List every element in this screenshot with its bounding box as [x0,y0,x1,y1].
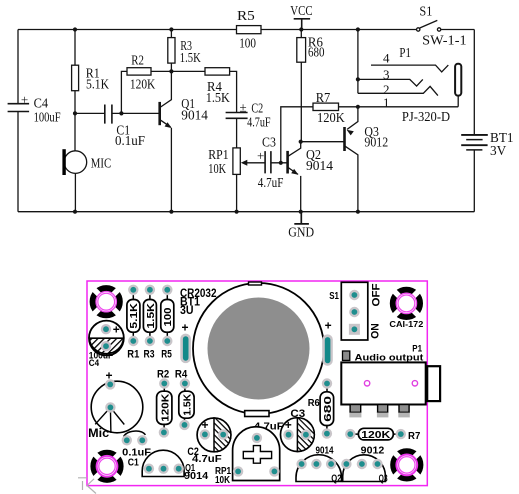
connector P1 pin 3 contact [358,79,423,86]
svg-text:9012: 9012 [361,445,385,457]
wire MIC to bottom rail [74,173,76,211]
pad RP1 top [252,433,262,443]
wire R3 top [170,30,172,38]
junction node bottom rail Q2/GND [299,210,303,214]
wire R7 left leg down to C3/Q2 node [281,107,313,163]
svg-text:+: + [201,418,208,432]
svg-text:ON: ON [370,323,382,339]
connector P1 left branch [357,30,359,94]
svg-text:3V: 3V [490,144,506,159]
resistor R2 body [157,388,172,428]
microphone MIC [62,149,86,175]
svg-text:RP1: RP1 [208,148,228,163]
capacitor C4 [8,104,30,112]
svg-text:4.7uF: 4.7uF [192,453,222,465]
battery holder top tab [249,282,262,285]
svg-text:R1: R1 [127,348,139,360]
microphone Mic body [91,381,143,433]
svg-text:+: + [181,320,188,334]
wire top VCC rail [18,29,474,31]
wire R3 bottom to node [170,63,172,71]
ground GND [294,212,309,224]
resistor R5 [237,26,262,34]
svg-text:100uF: 100uF [34,110,61,125]
svg-text:9014: 9014 [306,159,333,174]
svg-text:680: 680 [308,45,325,60]
pad S1 top [349,290,359,300]
svg-text:GND: GND [288,225,314,240]
pad R7 left [345,429,355,439]
pad R1 bottom [128,336,138,346]
svg-text:100: 100 [162,307,174,326]
svg-text:5.1K: 5.1K [86,78,109,93]
svg-text:R3: R3 [144,348,155,360]
mounting hole bottom-right [393,451,420,478]
pad Q3 1 [341,459,351,469]
switch S1 [417,20,441,31]
pad S1 bottom square [349,324,360,335]
pad Q3 2 [357,459,367,469]
junction node bottom rail Q1 [169,210,173,214]
wire R7 right / P1 pin1 line [339,96,459,107]
svg-text:C4: C4 [34,97,49,112]
svg-text:+: + [325,319,332,333]
wire C1 to Q1 base [112,112,160,114]
junction node top rail at P1 branch [356,27,360,31]
wire R4 right down to C2 [230,71,237,112]
svg-text:1.5K: 1.5K [206,91,230,106]
svg-text:S1: S1 [329,290,339,302]
pad Q1 2 [158,464,168,474]
jack index circle right [412,381,417,386]
svg-text:C2: C2 [251,102,263,117]
wire bottom ground rail [18,211,474,213]
wire node R1/C1 to C1 [75,112,105,114]
svg-text:10K: 10K [215,474,230,486]
svg-text:R4: R4 [175,369,188,381]
svg-text:4: 4 [383,51,390,66]
pad R7 right [396,429,406,439]
pad R3 top [145,285,155,295]
mounting hole top-left [93,288,120,315]
wire R2 left leg [121,71,127,113]
connector P1 pin1 marker [343,351,350,360]
junction node C3/R7/Q2 base [279,161,283,165]
svg-text:1.5K: 1.5K [181,393,193,415]
wire R1 top [74,30,76,66]
pad C1 left [122,435,132,445]
transistor Q1 [160,71,172,211]
svg-text:PJ-320-D: PJ-320-D [402,110,450,125]
svg-text:120K: 120K [317,111,345,126]
svg-text:VCC: VCC [290,4,312,19]
audio jack P1 body [341,362,425,404]
capacitor C2 [226,113,248,119]
pad C3 right [301,430,311,440]
svg-text:3U: 3U [180,305,194,317]
connector P1 plug sleeve [455,64,461,96]
mounting hole top-right [393,290,420,317]
pad C2 right [218,429,228,439]
svg-text:Mic: Mic [88,428,110,440]
resistor R1 body [127,295,140,336]
jack leg 3 [398,405,410,418]
pad R4 top [180,378,190,388]
svg-text:1.5K: 1.5K [180,51,201,66]
svg-text:120K: 120K [130,78,155,93]
wire R1 bottom to MIC [74,91,76,151]
pad Q2 1 [296,459,306,469]
mounting hole bottom-left [93,453,120,480]
wire C3 to Q2 base [271,162,288,164]
capacitor C4 body [89,321,124,356]
wire R2 right to node [151,70,171,72]
pad RP1 left [233,466,243,476]
pad Q3 3 [372,459,382,469]
svg-text:R6: R6 [308,397,320,409]
svg-text:CAI-172: CAI-172 [389,319,423,329]
wire Q2 collector node to Q3 base [301,141,345,143]
junction node R1/C1/MIC [73,111,77,115]
svg-text:R5: R5 [161,348,172,360]
capacitor C3 body [281,418,315,452]
wire R6 top [300,30,302,38]
resistor R6 [297,38,306,63]
jack leg 1 [349,405,361,418]
svg-text:9012: 9012 [364,136,388,151]
junction node R6/Q2 collector [299,140,303,144]
svg-text:C4: C4 [89,358,99,368]
wire right branch to BT1 [473,30,475,212]
battery holder bottom tab [245,411,269,417]
connector P1 pin 4 contact [371,65,448,72]
pad R6 bottom [322,428,332,438]
capacitor C1 arc body [124,431,146,436]
junction node top rail at VCC/R6 [299,27,303,31]
transistor Q1 body [142,450,184,476]
junction node top rail at R3 [169,27,173,31]
pad Mic top [105,379,115,389]
pad R1 top [128,285,138,295]
pad R2 bottom [159,427,169,437]
svg-text:MIC: MIC [91,157,111,172]
pad Mic center [105,402,115,412]
pad R3 bottom [145,336,155,346]
transistor Q2 body [296,455,342,482]
svg-text:R7: R7 [408,430,420,442]
power VCC [294,19,310,30]
svg-text:Q3: Q3 [379,473,388,485]
pad RP1 right [269,466,279,476]
capacitor C3 [265,151,271,173]
svg-text:+: + [113,323,120,337]
junction node P1 pin3 [356,77,360,81]
connector P1 pin 2 contact [358,86,438,95]
potentiometer RP1 [233,148,265,175]
svg-text:120K: 120K [361,429,390,441]
pad Q1 3 [174,464,184,474]
pad C4 bottom [101,341,111,351]
jack leg 2 [377,405,389,418]
junction node R7/pin1/Q3 emitter [356,105,360,109]
pad Q2 3 [326,459,336,469]
resistor R4 [205,68,230,75]
PCB board outline [87,281,427,486]
svg-text:SW-1-1: SW-1-1 [422,33,466,48]
battery BT1 [461,135,488,145]
svg-text:+: + [105,369,112,383]
svg-text:10K: 10K [208,162,226,177]
svg-text:R7: R7 [316,91,331,106]
svg-text:1: 1 [383,95,390,110]
battery holder outline circle [193,283,324,414]
transistor Q2 [288,142,301,212]
wire C2 to RP1 [236,118,238,148]
svg-text:100: 100 [239,37,256,52]
transistor Q3 body [343,455,386,482]
pad R5 bottom [162,336,172,346]
resistor R6 body [320,389,334,429]
pad C3 left [283,430,293,440]
resistor R1 [72,65,79,91]
svg-text:OFF: OFF [371,283,383,306]
svg-text:120K: 120K [159,393,171,421]
svg-text:9014: 9014 [316,445,334,457]
wire RP1 bottom to rail [236,174,238,211]
capacitor C1 [105,105,112,124]
resistor R7 body [355,428,395,440]
jack index circle left [364,381,369,386]
pad R6 top [322,378,332,388]
resistor R3 body [143,295,156,336]
svg-text:9014: 9014 [184,470,208,482]
pad S1 middle [349,307,359,317]
wire R6 bottom to Q2 collector node [300,62,302,142]
pad Q1 1 [144,464,154,474]
pad R2 top [159,378,169,388]
battery clip slot right [322,334,333,365]
junction node C1/R2 [119,111,123,115]
resistor R2 [127,68,151,75]
svg-text:680: 680 [322,396,334,422]
transistor Q3 [345,107,358,212]
svg-text:R2: R2 [157,369,169,381]
wire node to R4 [171,70,205,72]
wire left branch (C4 branch) [17,30,19,212]
svg-text:+: + [257,148,264,163]
svg-text:±: ± [21,92,28,107]
svg-text:C1: C1 [128,456,139,468]
junction node bottom rail Q3 [356,210,360,214]
svg-text:Q2: Q2 [331,473,341,485]
svg-text:0.1uF: 0.1uF [115,134,145,149]
speaker/battery gray disc [208,298,310,400]
svg-text:S1: S1 [419,4,432,19]
pad R4 bottom [179,420,189,430]
svg-text:C3: C3 [290,408,305,420]
capacitor C2 body [197,418,231,452]
resistor R3 [168,38,175,64]
svg-text:9014: 9014 [181,109,208,124]
resistor R7 [313,103,339,110]
pad R5 top [162,285,172,295]
corner cursor artifact [78,476,98,494]
pad Q2 2 [311,459,321,469]
svg-text:R5: R5 [237,9,255,24]
potentiometer RP1 body [233,427,280,481]
resistor R5 body [161,295,174,336]
resistor R4 body [179,388,194,421]
pad C1 right [137,435,147,445]
svg-text:R2: R2 [131,54,144,69]
svg-text:4.7uF: 4.7uF [258,176,284,191]
switch connector S1 body [341,282,368,340]
pad C4 top [101,324,111,334]
junction node bottom rail RP1 [235,210,239,214]
svg-text:3: 3 [383,67,390,82]
svg-text:5.1K: 5.1K [128,303,140,329]
junction node bottom rail MIC [73,210,77,214]
junction node top rail at R1 [73,27,77,31]
svg-text:1.5K: 1.5K [145,303,157,329]
junction node R2/R3/R4/Q1 [169,69,173,73]
battery clip slot left [180,334,191,364]
svg-text:4.7uF: 4.7uF [247,115,271,130]
pad C2 left [200,429,210,439]
svg-text:±: ± [240,100,247,115]
jack barrel outside board [427,366,440,401]
svg-text:P1: P1 [399,46,411,61]
